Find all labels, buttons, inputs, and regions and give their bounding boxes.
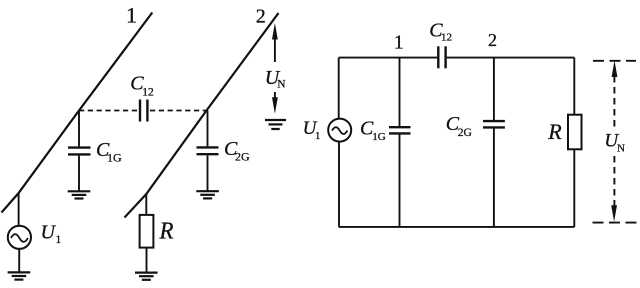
svg-text:12: 12 [441, 31, 452, 43]
svg-text:R: R [547, 119, 562, 144]
svg-text:R: R [159, 219, 174, 245]
svg-text:1G: 1G [107, 150, 122, 164]
svg-text:2G: 2G [235, 150, 250, 164]
svg-text:U: U [41, 221, 57, 243]
svg-text:12: 12 [142, 87, 154, 99]
svg-text:N: N [617, 142, 625, 154]
svg-text:1: 1 [315, 130, 321, 142]
svg-text:1: 1 [394, 32, 404, 54]
svg-text:1: 1 [126, 2, 137, 27]
svg-text:1G: 1G [372, 131, 386, 143]
svg-text:N: N [277, 79, 286, 91]
svg-text:2: 2 [256, 5, 266, 27]
svg-text:2: 2 [488, 30, 497, 50]
svg-text:1: 1 [56, 234, 62, 246]
svg-text:2G: 2G [458, 127, 472, 139]
